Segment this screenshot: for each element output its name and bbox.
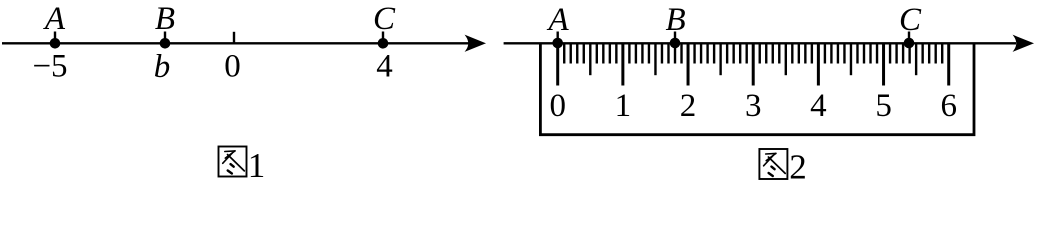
ruler minor tick 4.8	[869, 44, 871, 64]
figure 2 dot B	[670, 38, 681, 49]
svg-text:5: 5	[875, 88, 892, 124]
ruler minor tick 3.1	[759, 44, 761, 64]
ruler half tick 1.5	[654, 44, 656, 75]
ruler minor tick 1.6	[661, 44, 663, 64]
svg-text:0: 0	[549, 88, 566, 124]
ruler minor tick 3.8	[804, 44, 806, 64]
ruler minor tick 1.1	[628, 44, 630, 64]
ruler major tick 6	[947, 44, 950, 86]
ruler minor tick 4.2	[830, 44, 832, 64]
ruler minor tick 4.3	[837, 44, 839, 64]
ruler minor tick 3.2	[765, 44, 767, 64]
figure 2 dot C	[904, 38, 915, 49]
ruler minor tick 2.3	[706, 44, 708, 64]
svg-text:3: 3	[745, 88, 762, 124]
ruler minor tick 0.6	[596, 44, 598, 64]
ruler major tick 4	[817, 44, 820, 86]
svg-text:A: A	[547, 2, 570, 38]
svg-text:C: C	[373, 1, 396, 37]
ruler minor tick 0.1	[563, 44, 565, 64]
svg-text:6: 6	[940, 88, 957, 124]
ruler minor tick 2.9	[745, 44, 747, 64]
figure 1 tick at point A	[54, 32, 56, 45]
ruler minor tick 0.8	[609, 44, 611, 64]
ruler minor tick 0.3	[576, 44, 578, 64]
ruler minor tick 4.7	[863, 44, 865, 64]
ruler minor tick 5.2	[895, 44, 897, 64]
ruler minor tick 1.3	[641, 44, 643, 64]
caption tu2: hanzi tu outer box	[759, 149, 787, 179]
svg-text:2: 2	[789, 148, 807, 187]
ruler minor tick 2.7	[732, 44, 734, 64]
ruler minor tick 2.6	[726, 44, 728, 64]
ruler minor tick 2.4	[713, 44, 715, 64]
figure 2 number line wire	[504, 42, 1016, 44]
figure 1 number line wire	[2, 42, 470, 44]
ruler minor tick 2.1	[693, 44, 695, 64]
ruler minor tick 5.4	[908, 44, 910, 64]
caption tu1: hanzi tu inner strokes	[223, 151, 245, 174]
ruler minor tick 3.4	[778, 44, 780, 64]
ruler minor tick 1.2	[635, 44, 637, 64]
ruler minor tick 5.7	[928, 44, 930, 64]
ruler minor tick 0.7	[602, 44, 604, 64]
svg-text:B: B	[666, 2, 686, 38]
svg-text:2: 2	[680, 88, 697, 124]
figure 1 tick at point B	[164, 32, 166, 45]
ruler minor tick 1.8	[674, 44, 676, 64]
ruler minor tick 5.6	[921, 44, 923, 64]
caption tu1: hanzi tu outer box	[219, 147, 247, 177]
ruler half tick 2.5	[719, 44, 721, 75]
figure 2 tick above A	[557, 32, 559, 45]
caption tu2: hanzi tu inner strokes	[764, 153, 786, 176]
ruler minor tick 0.2	[570, 44, 572, 64]
ruler major tick 1	[621, 44, 624, 86]
svg-text:0: 0	[224, 49, 241, 85]
figure 1 arrowhead	[466, 36, 485, 51]
ruler minor tick 3.9	[811, 44, 813, 64]
ruler minor tick 5.1	[889, 44, 891, 64]
ruler minor tick 2.2	[700, 44, 702, 64]
ruler minor tick 3.6	[791, 44, 793, 64]
ruler minor tick 1.9	[680, 44, 682, 64]
ruler major tick 3	[752, 44, 755, 86]
svg-text:4: 4	[376, 49, 393, 85]
figure 2 arrowhead	[1014, 36, 1033, 51]
svg-text:−5: −5	[32, 49, 67, 85]
svg-text:B: B	[155, 1, 175, 37]
svg-text:b: b	[154, 49, 171, 85]
ruler minor tick 4.1	[824, 44, 826, 64]
ruler major tick 5	[882, 44, 885, 86]
ruler minor tick 0.4	[583, 44, 585, 64]
figure 2 tick above B	[674, 32, 676, 45]
svg-text:C: C	[899, 2, 922, 38]
svg-text:A: A	[43, 1, 66, 37]
ruler half tick 3.5	[785, 44, 787, 75]
ruler minor tick 4.9	[876, 44, 878, 64]
ruler major tick 0	[556, 44, 559, 86]
figure 1 dot C	[378, 38, 389, 49]
ruler minor tick 5.9	[941, 44, 943, 64]
ruler outline box	[540, 43, 974, 134]
ruler minor tick 3.7	[798, 44, 800, 64]
figure 1 dot A	[50, 38, 61, 49]
ruler minor tick 4.4	[843, 44, 845, 64]
figure 1 dot B	[160, 38, 171, 49]
figure 1 tick at point C	[382, 32, 384, 45]
ruler minor tick 2.8	[739, 44, 741, 64]
figure 2 dot A	[552, 38, 563, 49]
ruler minor tick 5.8	[934, 44, 936, 64]
ruler minor tick 4.6	[856, 44, 858, 64]
ruler minor tick 0.9	[615, 44, 617, 64]
svg-text:1: 1	[248, 146, 266, 185]
ruler minor tick 5.3	[902, 44, 904, 64]
ruler minor tick 3.3	[772, 44, 774, 64]
ruler half tick 4.5	[850, 44, 852, 75]
ruler minor tick 1.7	[667, 44, 669, 64]
figure 1 tick at origin 0	[233, 32, 235, 45]
ruler minor tick 1.4	[648, 44, 650, 64]
ruler major tick 2	[687, 44, 690, 86]
ruler half tick 5.5	[915, 44, 917, 75]
svg-text:4: 4	[810, 88, 827, 124]
svg-text:1: 1	[615, 88, 632, 124]
figure 2 tick above C	[908, 32, 910, 45]
ruler half tick 0.5	[589, 44, 591, 75]
